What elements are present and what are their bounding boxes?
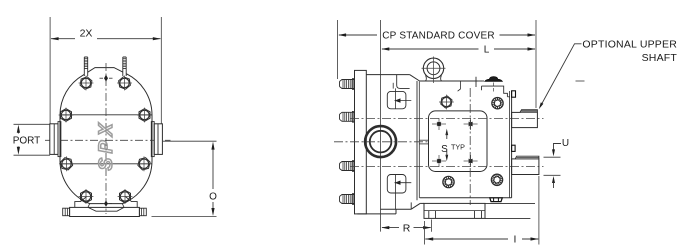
upper bearing retainer bbox=[387, 91, 406, 108]
right port flange bbox=[154, 124, 162, 155]
horizontal port centerline (front view) bbox=[45, 139, 171, 141]
lower pipe plug boss bbox=[512, 145, 515, 151]
cover bolt lower-right serrated bbox=[491, 174, 502, 185]
gear housing top chamfer bbox=[410, 75, 420, 81]
case-cover joint lines bbox=[416, 81, 418, 200]
panel rib lines bbox=[419, 139, 428, 141]
base saddle dip bbox=[88, 207, 124, 211]
right stud bbox=[123, 57, 126, 76]
lower retainer arrow bbox=[395, 181, 401, 185]
svg-text:TYP: TYP bbox=[451, 143, 465, 152]
flange stud 3 bbox=[340, 162, 355, 171]
upper shaft centerline bbox=[350, 118, 544, 120]
casing joint chord upper bbox=[60, 114, 152, 116]
cover bolt upper-left bbox=[441, 96, 452, 108]
svg-text:S: S bbox=[441, 144, 448, 155]
cover bottom edge bbox=[420, 197, 512, 199]
flange stud 2 bbox=[340, 112, 355, 121]
suction flange plate (side view) bbox=[355, 70, 367, 214]
upper-right nut bbox=[139, 109, 150, 122]
svg-text:2X: 2X bbox=[80, 27, 93, 39]
I dimension line bbox=[425, 238, 508, 240]
optional shaft leader bbox=[540, 44, 581, 107]
panel hole TL bbox=[437, 122, 440, 125]
foot bbox=[424, 203, 485, 218]
flange stud 4 bbox=[340, 195, 355, 204]
panel hole TR bbox=[469, 122, 472, 125]
PORT dimension arrows bbox=[17, 130, 19, 134]
2X dimension line bbox=[51, 38, 75, 40]
upper-left nut bbox=[61, 109, 72, 122]
R dimension line bbox=[382, 227, 399, 229]
cover bolt lower-left serrated bbox=[443, 176, 454, 187]
flange stud 1 bbox=[340, 80, 355, 89]
cover right edge bbox=[511, 91, 513, 198]
bottom diagonal to foot bbox=[411, 203, 420, 209]
far side foot lines bbox=[485, 202, 535, 204]
panel hole BR bbox=[469, 159, 472, 162]
S dimension arrows bbox=[445, 129, 448, 136]
head casting top edge bbox=[366, 74, 409, 76]
L dimension line bbox=[382, 48, 479, 50]
bottom marker diamond bbox=[104, 200, 108, 206]
vertical centerline (front view) bbox=[105, 63, 107, 214]
head casting bottom edge bbox=[357, 213, 396, 215]
body top edge bbox=[420, 80, 478, 82]
rotor case panel bbox=[429, 111, 488, 172]
left port flange bbox=[50, 124, 58, 155]
svg-text:U: U bbox=[562, 138, 569, 149]
O dimension bottom line bbox=[152, 215, 217, 217]
upper retainer arrow bbox=[395, 98, 401, 102]
lower shaft centerline bbox=[350, 166, 544, 168]
svg-text:SPX: SPX bbox=[96, 119, 117, 171]
SPX logo bbox=[96, 119, 117, 171]
svg-text:I: I bbox=[514, 233, 517, 245]
base right end cap bbox=[139, 208, 146, 216]
cover hidden corner tick bbox=[458, 81, 461, 91]
gear housing joint line bbox=[380, 20, 382, 232]
O dimension top line bbox=[163, 140, 217, 142]
lower-right nut bbox=[138, 158, 150, 170]
PORT dimension extension lines bbox=[14, 123, 51, 125]
top centerline cross tick bbox=[475, 77, 477, 87]
lower-left nut bbox=[60, 158, 72, 170]
lifting eye boss bbox=[423, 58, 443, 78]
svg-text:R: R bbox=[403, 222, 411, 234]
bottom drain boss bbox=[410, 202, 412, 208]
base plate bbox=[70, 207, 140, 216]
cover bolt upper-right serrated bbox=[492, 98, 503, 109]
svg-text:SHAFT: SHAFT bbox=[642, 52, 678, 64]
U leader and arrows bbox=[554, 144, 562, 151]
base left end cap bbox=[63, 208, 70, 216]
top-right nut bbox=[119, 77, 131, 89]
casing chord to saddle bbox=[88, 204, 124, 208]
CP dimension extension lines bbox=[337, 20, 339, 79]
drain hex plug (bottom) bbox=[490, 198, 503, 202]
2X dimension extension lines bbox=[49, 17, 51, 124]
O dimension line bbox=[212, 147, 214, 189]
gear housing inner step bbox=[397, 75, 410, 89]
CP STANDARD COVER dimension line bbox=[339, 34, 377, 36]
vertical centerline (side view) bbox=[469, 88, 471, 205]
gear housing bottom edge bbox=[381, 208, 412, 210]
pump casing outline (front view) bbox=[60, 68, 152, 204]
port bore ring bbox=[365, 126, 396, 157]
casing joint chord lower bbox=[60, 163, 152, 165]
svg-text:L: L bbox=[484, 45, 490, 56]
I dimension extension lines bbox=[424, 221, 426, 245]
relief valve cap (top) bbox=[485, 77, 503, 82]
top-left nut bbox=[80, 77, 92, 89]
top marker diamond bbox=[104, 75, 108, 82]
svg-text:OPTIONAL UPPER: OPTIONAL UPPER bbox=[582, 38, 677, 50]
bottom-left nut bbox=[81, 190, 92, 203]
upper pipe plug boss bbox=[512, 91, 516, 97]
drive shaft bbox=[512, 159, 539, 175]
head casting lower right edge bbox=[395, 209, 397, 214]
right mounting bracket bbox=[126, 197, 138, 208]
R dimension extension line bbox=[431, 220, 433, 232]
bottom-right nut bbox=[120, 190, 131, 203]
pump centerline (side view) bbox=[334, 141, 429, 143]
left mounting bracket bbox=[75, 197, 87, 208]
lower bearing retainer bbox=[387, 175, 406, 194]
cap seat outline bbox=[482, 86, 508, 97]
foot slot lines bbox=[428, 211, 430, 219]
svg-text:PORT: PORT bbox=[13, 135, 41, 146]
panel hole BL bbox=[437, 159, 440, 162]
svg-text:CP STANDARD COVER: CP STANDARD COVER bbox=[382, 30, 495, 41]
svg-text:O: O bbox=[209, 192, 217, 203]
left stud bbox=[84, 57, 87, 76]
optional upper shaft bbox=[512, 112, 538, 127]
